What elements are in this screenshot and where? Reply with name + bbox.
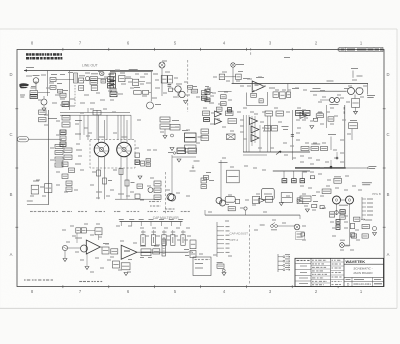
svg-text:D: D <box>9 72 12 77</box>
svg-text:CAP MULTIPLIER: CAP MULTIPLIER <box>153 216 180 220</box>
svg-text:C: C <box>9 132 12 137</box>
svg-text:B: B <box>10 192 13 197</box>
svg-text:OPT-2: OPT-2 <box>230 238 239 242</box>
svg-text:C: C <box>386 132 389 137</box>
svg-text:LINE OUT: LINE OUT <box>82 64 98 68</box>
svg-text:CAP ADJUST: CAP ADJUST <box>230 231 249 235</box>
svg-text:MAIN BOARD: MAIN BOARD <box>353 271 373 275</box>
svg-text:WAVETEK: WAVETEK <box>346 259 366 264</box>
svg-text:A: A <box>10 252 13 257</box>
svg-text:D: D <box>386 72 389 77</box>
svg-text:PPG B: PPG B <box>372 192 381 196</box>
svg-text:A: A <box>387 252 390 257</box>
svg-text:0004-00-0431: 0004-00-0431 <box>354 282 372 286</box>
svg-text:B: B <box>387 192 390 197</box>
